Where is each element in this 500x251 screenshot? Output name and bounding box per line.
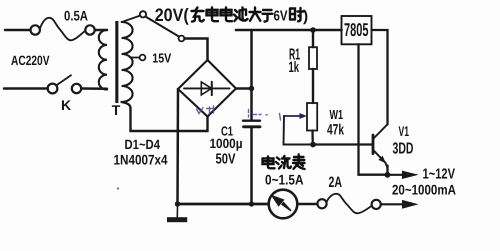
svg-text:15V: 15V: [152, 51, 171, 66]
fuse 2A left terminal: [317, 199, 326, 208]
node junction emitter output: [385, 172, 391, 178]
wire 15V tap lead: [130, 57, 140, 59]
bridge diode symbol lead: [184, 87, 230, 89]
svg-text:1N4007x4: 1N4007x4: [114, 152, 168, 168]
resistor R1 lead top: [312, 30, 314, 47]
svg-text:1~12V: 1~12V: [423, 167, 456, 183]
svg-text:D1~D4: D1~D4: [125, 137, 161, 152]
terminal 15V tap: [140, 55, 146, 61]
fuse 2A right terminal: [372, 200, 381, 209]
terminal 20V tap: [140, 11, 146, 17]
label dianliubiao (current meter) chinese: [263, 155, 305, 170]
wire bridge minus to ground rail: [176, 89, 179, 204]
regulator U1 7805 box: [342, 16, 372, 44]
ground symbol stub: [176, 206, 178, 217]
svg-text:0.5A: 0.5A: [64, 8, 88, 24]
fuse FU 0.5A left terminal: [31, 25, 40, 34]
scan speck: [117, 187, 119, 189]
output arrow bottom: [381, 203, 404, 205]
svg-text:): ): [303, 8, 308, 25]
node junction bridge plus: [249, 86, 254, 91]
fuse 2A body: [327, 194, 372, 214]
switch K left terminal: [48, 84, 58, 94]
svg-text:T: T: [112, 102, 121, 118]
bridge rectifier D1-D4 diamond: [178, 60, 236, 117]
wire base: [313, 143, 372, 145]
ammeter PA circle: [269, 190, 298, 219]
switch K arm: [57, 75, 71, 84]
potentiometer W1 wiper arrow: [284, 115, 302, 117]
bridge diode symbol triangle: [201, 82, 211, 95]
wire W1 bottom lead: [311, 131, 314, 145]
resistor R1 lead bottom: [312, 69, 314, 103]
node junction ground rail left: [175, 201, 180, 206]
node junction W1 base: [310, 142, 316, 148]
output arrow top: [390, 174, 404, 176]
wire W1 wiper loop: [284, 116, 311, 145]
potentiometer W1 body: [307, 103, 317, 131]
wire secondary top lead to 20V tap: [122, 16, 140, 22]
svg-text:K: K: [61, 97, 71, 113]
wire to transformer primary: [81, 87, 107, 90]
transformer T core: [115, 21, 118, 103]
wire AC live input: [5, 29, 30, 32]
switch K right terminal: [72, 84, 81, 93]
svg-text:1000µ: 1000µ: [210, 136, 243, 151]
ground symbol bar: [167, 217, 187, 222]
node junction R1 top: [310, 27, 316, 33]
bridge diode symbol bar: [211, 82, 213, 95]
svg-text:2A: 2A: [329, 174, 343, 191]
svg-text:0~1.5A: 0~1.5A: [265, 172, 304, 188]
wire bridge plus to rail junction: [236, 87, 252, 90]
fuse FU 0.5A right terminal: [85, 25, 94, 34]
wire 7805 output to collector: [372, 30, 388, 124]
capacitor C1 top plate: [243, 119, 260, 121]
svg-text:7805: 7805: [344, 19, 369, 40]
svg-text:50V: 50V: [216, 152, 236, 168]
node junction C1 bottom: [249, 201, 254, 206]
svg-text:3DD: 3DD: [393, 141, 414, 158]
fuse FU 0.5A body: [40, 18, 86, 41]
transformer T primary winding: [99, 30, 107, 90]
svg-text:W1: W1: [330, 107, 344, 122]
resistor R1 body: [309, 47, 317, 69]
wire ground rail bottom: [178, 203, 269, 206]
wire fuse to transformer primary: [95, 29, 107, 32]
wire AC neutral input: [4, 87, 48, 90]
wire secondary bottom to bridge AC bottom: [122, 102, 208, 131]
wire C1 to ground rail: [250, 128, 253, 204]
wire ammeter to fuse 2A: [297, 203, 317, 206]
svg-text:AC220V: AC220V: [11, 53, 50, 68]
wire selector to bridge AC top: [184, 39, 207, 61]
svg-text:20~1000mA: 20~1000mA: [392, 182, 456, 198]
terminal selector pivot: [179, 36, 185, 42]
svg-text:1k: 1k: [289, 59, 300, 76]
wire rail down to C1: [250, 30, 253, 120]
svg-text:6V: 6V: [274, 8, 288, 24]
ammeter needle: [271, 195, 292, 212]
svg-text:20V(: 20V(: [155, 5, 189, 25]
scan artifact blue marks near bridge bottom: [197, 106, 281, 120]
wire 7805 ground pin to output node: [359, 44, 386, 174]
transistor V1 collector: [373, 124, 388, 139]
label chongdian dianchi dayu 6V shi (chinese): [192, 8, 304, 22]
transistor V1 emitter: [373, 150, 388, 168]
switch selector arm from 20V tap: [146, 17, 179, 37]
transformer T secondary winding: [122, 22, 133, 102]
svg-text:47k: 47k: [327, 121, 344, 138]
transistor V1 base bar: [372, 135, 375, 154]
capacitor C1 bottom plate: [244, 125, 261, 128]
svg-text:V1: V1: [399, 123, 410, 139]
wire positive rail top: [236, 29, 342, 32]
